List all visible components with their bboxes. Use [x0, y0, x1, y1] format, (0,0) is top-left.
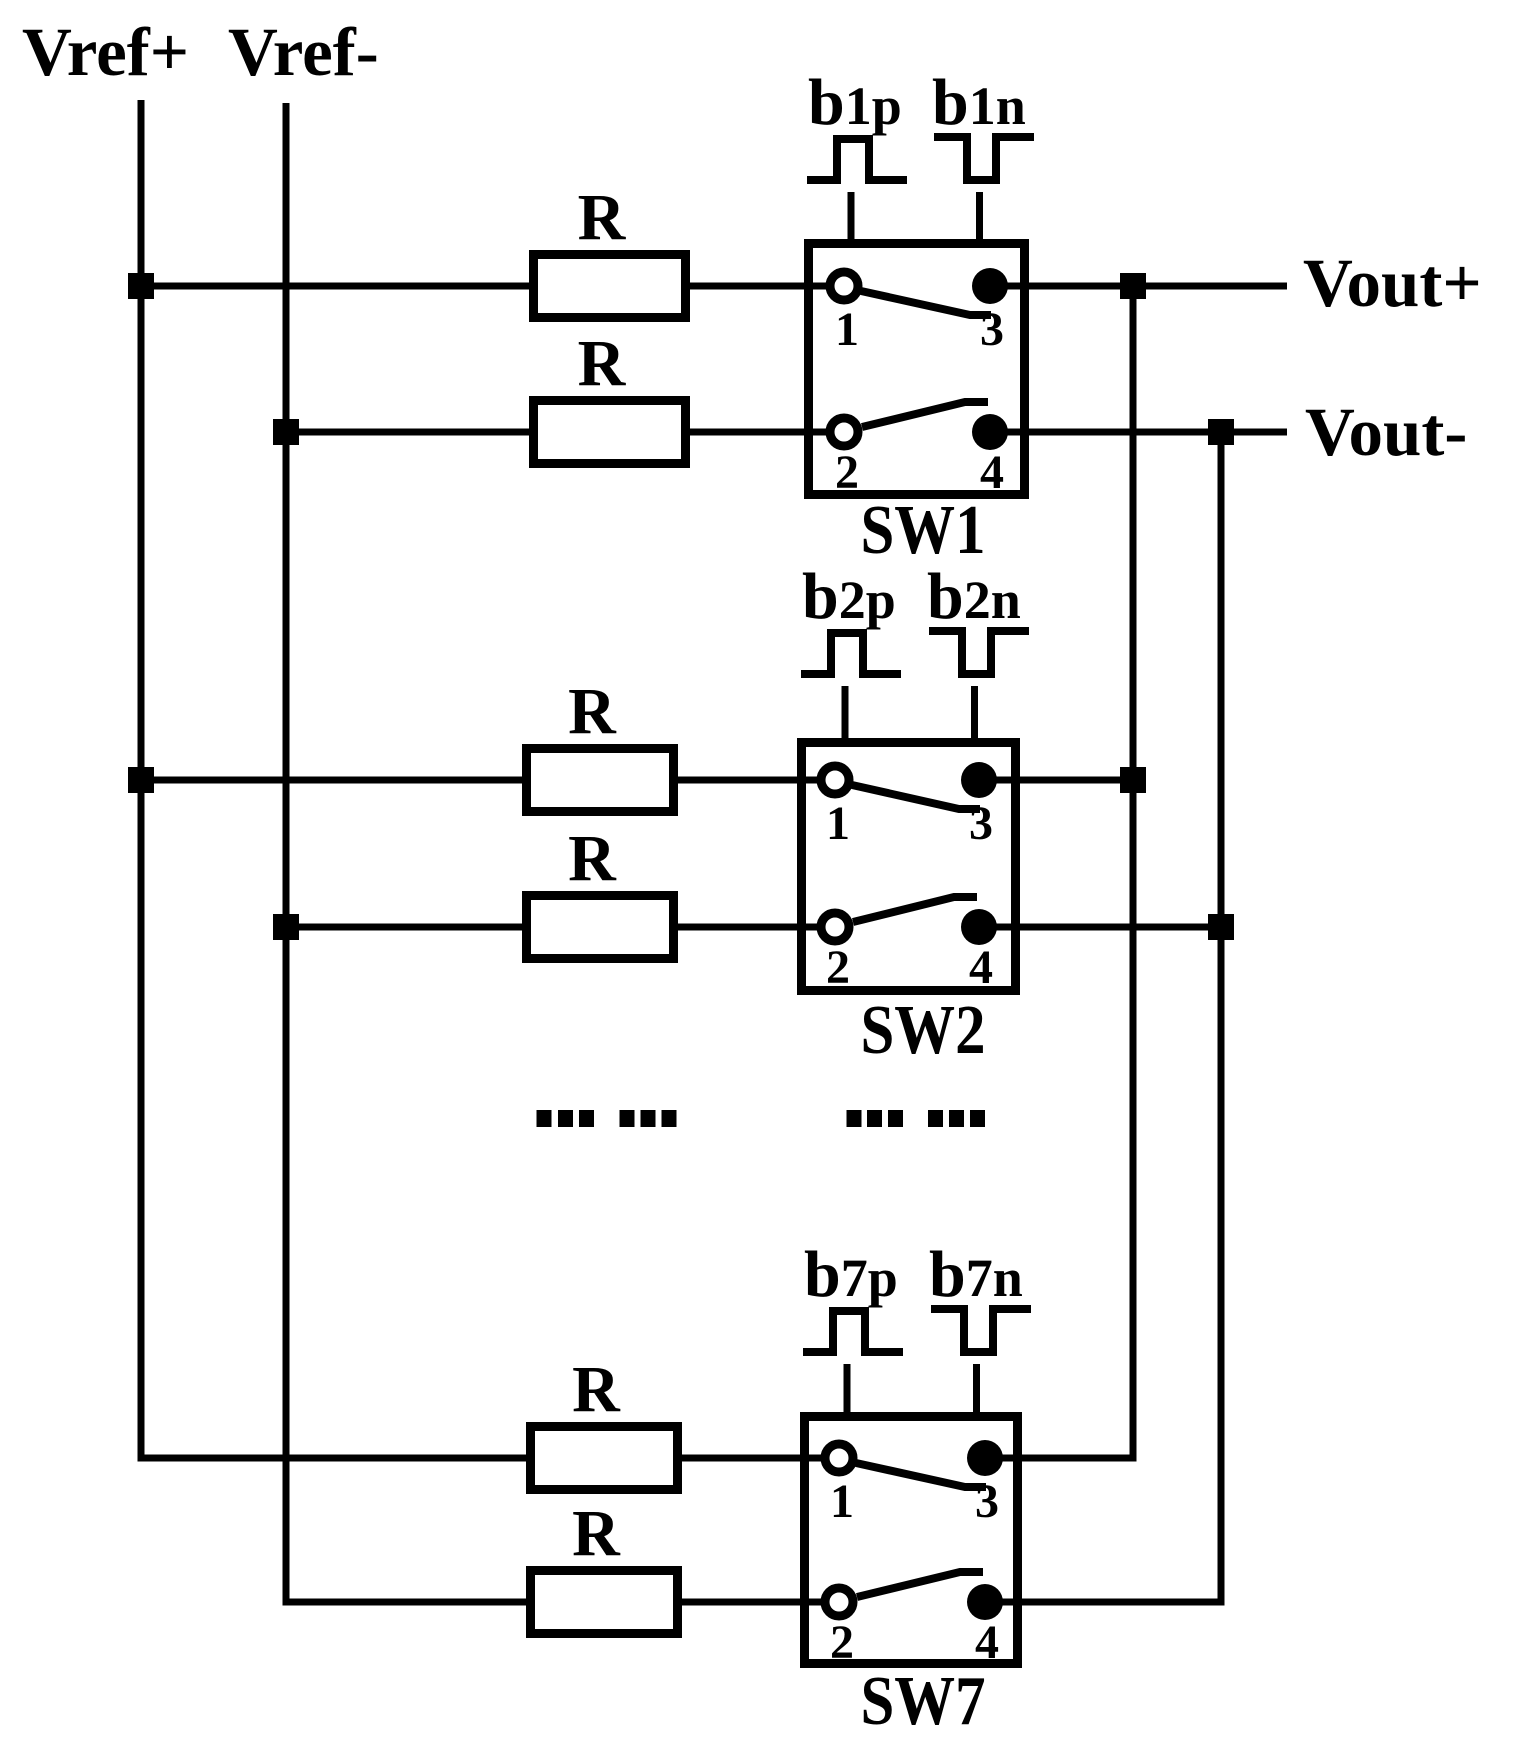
pin 4 of SW2 (closed contact)	[961, 909, 997, 945]
wire	[990, 429, 1287, 436]
pin 1 of SW1 (open contact)	[830, 272, 858, 300]
pin 1 of SW2 (open contact)	[821, 766, 849, 794]
svg-text:b7n: b7n	[929, 1238, 1023, 1311]
svg-text:b2n: b2n	[927, 560, 1021, 633]
svg-text:3: 3	[975, 1475, 999, 1528]
switch SW1 box	[809, 244, 1025, 495]
control waveform b7n (negative pulse)	[931, 1309, 1031, 1352]
resistor R (SW7 row 2)	[531, 1571, 678, 1634]
svg-text:Vref-: Vref-	[228, 14, 379, 90]
wire	[141, 777, 526, 784]
control waveform b2n (negative pulse)	[929, 631, 1029, 674]
svg-text:3: 3	[980, 303, 1004, 356]
switch lever pins 2-4 of SW7	[857, 1572, 983, 1597]
switch lever pins 2-4 of SW2	[853, 897, 977, 922]
switch SW2 box	[802, 743, 1016, 991]
wire Vref- vertical bus with corner to SW7 row 2	[286, 103, 526, 1602]
wire control stub b2n to SW2	[971, 686, 978, 747]
pin 4 of SW1 (closed contact)	[972, 414, 1008, 450]
wire	[678, 1455, 839, 1462]
resistor R (SW7 row 1)	[531, 1427, 678, 1490]
junction	[1120, 767, 1146, 793]
wire	[979, 777, 1133, 784]
wire control stub b7p to SW7	[844, 1364, 851, 1421]
wire	[286, 1599, 530, 1606]
svg-text:1: 1	[830, 1475, 854, 1528]
wire	[990, 283, 1287, 290]
wire	[286, 924, 526, 931]
junction	[1120, 273, 1146, 299]
junction	[1208, 914, 1234, 940]
junction	[128, 767, 154, 793]
wire control stub b1n to SW1	[976, 192, 983, 248]
switch lever pins 1-3 of SW1	[861, 291, 991, 315]
svg-text:b2p: b2p	[802, 560, 896, 633]
ellipsis dots (resistor column continuation)	[537, 1110, 677, 1127]
control waveform b7p (positive pulse)	[803, 1311, 903, 1352]
ellipsis dots (switch column continuation)	[847, 1110, 986, 1127]
svg-text:Vref+: Vref+	[22, 14, 189, 90]
svg-text:4: 4	[975, 1616, 999, 1669]
resistor R (SW2 row 1)	[527, 749, 674, 812]
wire control stub b1p to SW1	[848, 192, 855, 248]
svg-text:SW7: SW7	[861, 1663, 986, 1740]
junction	[273, 914, 299, 940]
svg-text:b1n: b1n	[932, 66, 1026, 139]
junction	[273, 419, 299, 445]
switch SW7 box	[805, 1417, 1018, 1664]
svg-text:Vout+: Vout+	[1303, 245, 1482, 321]
svg-text:3: 3	[969, 797, 993, 850]
wire	[141, 283, 533, 290]
pin 2 of SW2 (open contact)	[821, 913, 849, 941]
wire	[674, 777, 835, 784]
svg-text:R: R	[572, 1353, 621, 1426]
wire	[678, 1599, 839, 1606]
pin 3 of SW2 (closed contact)	[961, 762, 997, 798]
wire	[985, 1599, 1221, 1606]
control waveform b1p (positive pulse)	[807, 139, 907, 180]
wire	[141, 1455, 530, 1462]
pin 2 of SW7 (open contact)	[825, 1588, 853, 1616]
switch lever pins 2-4 of SW1	[862, 402, 988, 427]
svg-text:R: R	[572, 1497, 621, 1570]
wire control stub b2p to SW2	[842, 686, 849, 747]
control waveform b2p (positive pulse)	[801, 633, 901, 674]
resistor R (SW1 row 1)	[534, 255, 686, 318]
switch lever pins 1-3 of SW2	[852, 785, 980, 809]
wire	[674, 924, 835, 931]
svg-text:R: R	[568, 675, 617, 748]
svg-text:4: 4	[969, 941, 993, 994]
pin 1 of SW7 (open contact)	[825, 1444, 853, 1472]
svg-text:b7p: b7p	[804, 1238, 898, 1311]
svg-text:Vout-: Vout-	[1305, 394, 1467, 470]
svg-text:b1p: b1p	[808, 66, 902, 139]
svg-text:R: R	[578, 181, 627, 254]
pin 3 of SW7 (closed contact)	[967, 1440, 1003, 1476]
pin 3 of SW1 (closed contact)	[972, 268, 1008, 304]
pin 4 of SW7 (closed contact)	[967, 1584, 1003, 1620]
wire Vref+ vertical bus with corner to SW7 row 1	[141, 100, 526, 1458]
svg-text:R: R	[568, 822, 617, 895]
switch lever pins 1-3 of SW7	[856, 1463, 986, 1487]
wire	[979, 924, 1221, 931]
svg-text:SW1: SW1	[861, 492, 986, 569]
svg-text:2: 2	[835, 446, 859, 499]
resistor R (SW2 row 2)	[527, 896, 674, 959]
wire	[286, 429, 533, 436]
junction	[1208, 419, 1234, 445]
svg-text:1: 1	[835, 303, 859, 356]
wire	[686, 429, 844, 436]
wire	[686, 283, 844, 290]
pin 2 of SW1 (open contact)	[830, 418, 858, 446]
wire control stub b7n to SW7	[973, 1364, 980, 1421]
control waveform b1n (negative pulse)	[934, 137, 1034, 180]
wire Vout+ vertical bus with corner to SW7 pin 3	[985, 286, 1133, 1458]
svg-text:1: 1	[826, 797, 850, 850]
svg-text:R: R	[578, 327, 627, 400]
resistor R (SW1 row 2)	[534, 401, 686, 464]
svg-text:2: 2	[826, 941, 850, 994]
wire	[985, 1455, 1133, 1462]
wire Vout- vertical bus with corner to SW7 pin 4	[985, 432, 1221, 1602]
svg-text:2: 2	[830, 1616, 854, 1669]
junction	[128, 273, 154, 299]
svg-text:SW2: SW2	[861, 992, 986, 1069]
